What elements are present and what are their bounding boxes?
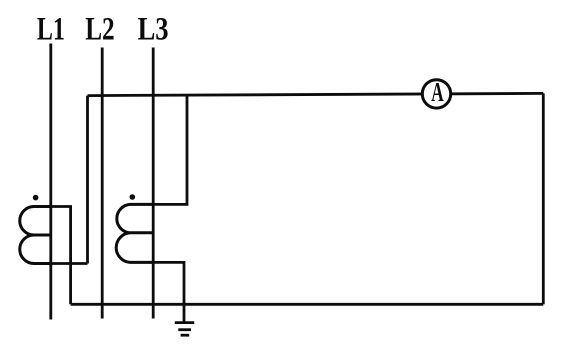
svg-text:L1: L1 — [37, 12, 65, 48]
ammeter A — [422, 77, 450, 108]
wire top bus (to ammeter) — [88, 93, 544, 95]
wire CT1 S2 terminal to top bus — [86, 96, 89, 264]
wire CT1 S1 terminal to bottom bus — [51, 207, 71, 305]
wire right side — [542, 93, 545, 304]
wire CT2 S1 terminal to top bus — [153, 95, 187, 204]
polarity dot TA2 — [130, 194, 136, 200]
wire L1 feeder — [49, 44, 52, 320]
polarity dot TA1 — [33, 195, 39, 201]
current transformer TA1 secondary coil — [20, 207, 51, 264]
svg-text:L2: L2 — [85, 12, 115, 48]
svg-text:A: A — [431, 77, 444, 107]
ground — [175, 323, 194, 336]
wire CT2 S2 terminal to ground — [153, 262, 184, 321]
wire CT1 S2 horizontal — [51, 262, 88, 265]
current transformer TA2 secondary coil — [116, 204, 153, 262]
wire bottom bus — [71, 303, 544, 306]
wire L2 feeder — [101, 48, 104, 319]
svg-text:L3: L3 — [138, 12, 169, 48]
wire L3 feeder — [152, 48, 155, 319]
